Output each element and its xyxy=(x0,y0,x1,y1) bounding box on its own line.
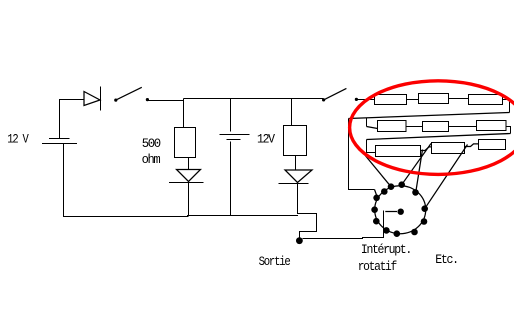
diode D1 triangle xyxy=(84,92,100,106)
resistor R5 xyxy=(469,95,503,105)
diode D2 triangle xyxy=(177,170,201,182)
wire R2 to diode D3 xyxy=(295,156,297,170)
wire bus down to resistor R1 xyxy=(183,99,185,128)
diode D3 cathode bar xyxy=(279,183,309,185)
wire top bus left xyxy=(148,100,184,102)
wire D3 to output jog xyxy=(298,183,317,239)
contact 8 xyxy=(394,230,401,237)
wire R6 to R7 xyxy=(406,126,423,128)
svg-text:rotatif: rotatif xyxy=(358,259,397,274)
resistor R8 xyxy=(477,121,507,131)
wire row1 to row2 sloped connector xyxy=(349,113,510,119)
svg-text:12V: 12V xyxy=(257,132,275,147)
wire R3 to R4 xyxy=(407,99,419,101)
wire bottom bus xyxy=(64,144,299,217)
svg-text:Sortie: Sortie xyxy=(259,254,291,269)
red ellipse highlight xyxy=(350,81,514,175)
wire battery B1 top to diode D1 xyxy=(60,100,84,139)
wire tap T0 down to contact 4 xyxy=(349,119,375,190)
resistor R9 xyxy=(376,146,421,157)
diode D3 triangle xyxy=(285,170,312,183)
wire Sortie node to rotary wiper xyxy=(303,211,384,239)
wire top bus right xyxy=(184,98,324,100)
battery B2 bottom wire xyxy=(230,142,232,216)
contact 10 xyxy=(421,218,428,225)
battery B1 plates xyxy=(49,138,70,140)
wire row2 to row3 sloped connector xyxy=(367,134,511,140)
wire switch S2 to resistor R3 xyxy=(357,99,375,101)
wire R1 to diode D2 xyxy=(188,158,190,170)
tap wire to contact 12 xyxy=(416,150,423,193)
resistor R10 xyxy=(432,143,465,154)
wire R7 to R8 xyxy=(449,126,477,128)
tap wire to contact 2 xyxy=(402,144,431,185)
svg-text:Intérupt.: Intérupt. xyxy=(361,242,411,257)
svg-text:Etc.: Etc. xyxy=(435,252,457,267)
wire connector down to R6 xyxy=(366,118,368,127)
resistor R1 500 ohm xyxy=(175,128,196,158)
switch S2 xyxy=(322,98,325,101)
tap wire to contact 11 xyxy=(425,145,468,209)
svg-text:ohm: ohm xyxy=(142,152,161,167)
diode D2 cathode bar xyxy=(169,182,204,184)
wire row3 left drop xyxy=(367,140,376,153)
node Sortie xyxy=(296,237,303,244)
diode D1 cathode bar xyxy=(100,87,102,111)
battery B2 plates xyxy=(220,134,250,136)
resistor R7 xyxy=(423,122,449,132)
rotary wiper xyxy=(385,211,397,213)
contact 6 xyxy=(373,218,380,225)
rotary switch body xyxy=(375,186,426,234)
contact 4 xyxy=(373,195,380,202)
contact 12 xyxy=(412,189,419,196)
resistor R11 xyxy=(479,140,506,150)
resistor R6 xyxy=(378,121,407,132)
resistor R2 xyxy=(284,126,307,156)
contact 7 xyxy=(383,227,390,234)
wire R4 to R5 xyxy=(449,98,469,100)
wire bus down to resistor R2 xyxy=(291,99,293,126)
tap wire to contact 1 xyxy=(357,146,391,187)
wire row2 end corner xyxy=(506,127,511,134)
contact 5 xyxy=(371,206,378,213)
svg-text:12 V: 12 V xyxy=(7,131,29,146)
wire row1 end corner xyxy=(503,100,510,113)
resistor R4 xyxy=(419,94,449,104)
battery B2 top wire xyxy=(230,99,232,132)
contact 9 xyxy=(411,229,418,236)
wire D2 to bottom bus xyxy=(188,183,190,217)
wire R10 to R11 zigzag xyxy=(465,144,479,147)
wire T0 bend to contact 4 xyxy=(375,190,377,196)
wire connector diagonal into R6 xyxy=(367,127,378,129)
contact 1 xyxy=(388,183,395,190)
contact 2 xyxy=(398,181,405,188)
wire R9 to R10 zigzag xyxy=(421,147,432,151)
contact 3 xyxy=(381,188,388,195)
switch S1 xyxy=(114,99,117,102)
resistor R3 xyxy=(375,95,407,105)
contact 11 xyxy=(421,205,428,212)
svg-text:500: 500 xyxy=(142,136,161,151)
